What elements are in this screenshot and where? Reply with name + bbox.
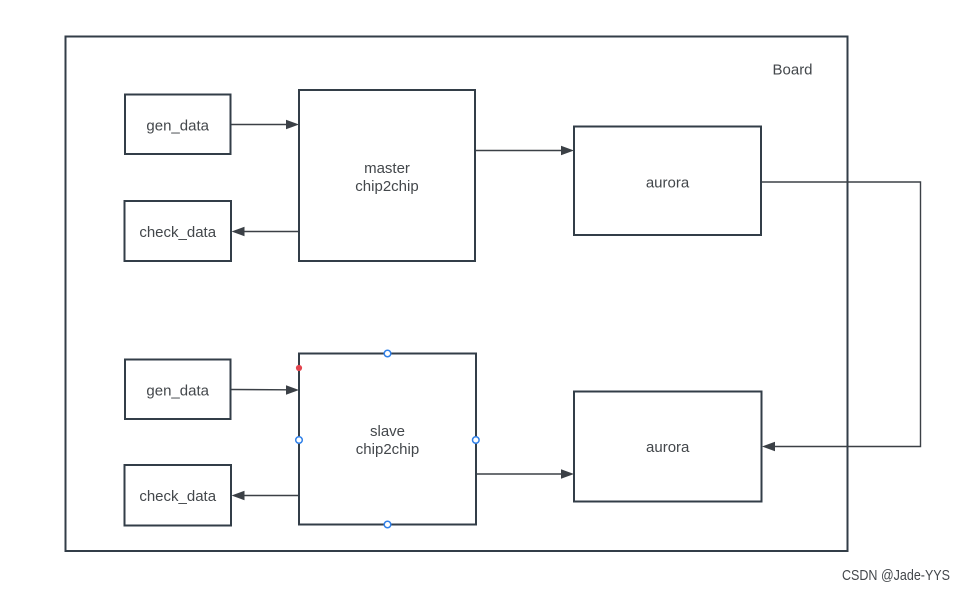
svg-text:chip2chip: chip2chip <box>356 441 419 458</box>
svg-text:slave: slave <box>370 423 405 440</box>
svg-text:Board: Board <box>773 62 813 79</box>
svg-text:check_data: check_data <box>139 488 216 505</box>
svg-text:aurora: aurora <box>646 174 690 191</box>
svg-text:chip2chip: chip2chip <box>355 178 418 195</box>
svg-text:check_data: check_data <box>139 224 216 241</box>
svg-text:gen_data: gen_data <box>146 117 209 134</box>
svg-text:gen_data: gen_data <box>146 382 209 399</box>
svg-text:master: master <box>364 160 410 177</box>
svg-text:CSDN @Jade-YYS: CSDN @Jade-YYS <box>842 567 950 584</box>
svg-text:aurora: aurora <box>646 439 690 456</box>
